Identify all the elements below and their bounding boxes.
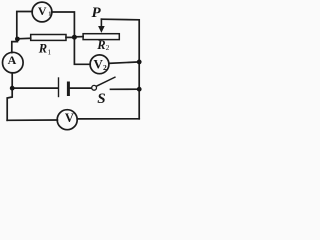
wire node A jog down to ammeter	[12, 39, 18, 53]
wire V1 right lead	[52, 12, 74, 37]
wire rheostat wiper to right rail	[101, 19, 139, 119]
svg-text:V: V	[65, 111, 74, 125]
rheostat wiper arrowhead	[98, 26, 105, 33]
node A junction dot	[15, 37, 20, 42]
voltmeter V1	[32, 2, 52, 22]
node E junction dot	[137, 87, 142, 92]
svg-text:R: R	[96, 38, 105, 52]
wire R1 to node B	[66, 36, 74, 38]
voltmeter V2	[90, 55, 109, 74]
ammeter A	[3, 52, 24, 73]
svg-text:V: V	[38, 4, 47, 18]
svg-text:2: 2	[103, 63, 107, 72]
svg-text:A: A	[8, 53, 17, 67]
wire node B down to voltmeter V2	[74, 37, 90, 64]
wire switch to node E	[111, 88, 140, 90]
wire left rail down	[7, 88, 12, 120]
wire bottom to voltmeter V	[7, 119, 57, 121]
node B junction dot	[72, 35, 77, 40]
voltmeter V	[57, 110, 77, 130]
battery long plate	[58, 78, 60, 97]
wire ammeter to node C	[11, 73, 13, 88]
wire node B to R2	[74, 36, 83, 38]
svg-text:R: R	[38, 42, 47, 56]
wire node C to battery	[12, 87, 58, 89]
switch S lever	[96, 77, 115, 86]
svg-text:P: P	[92, 5, 102, 21]
svg-text:S: S	[97, 91, 105, 107]
wire node A to R1	[17, 37, 30, 40]
node C junction dot	[10, 86, 15, 91]
wire battery to switch	[70, 87, 92, 89]
resistor R1	[31, 35, 66, 41]
wire voltmeter V to right rail	[77, 118, 139, 120]
wire V1 left lead	[17, 12, 32, 39]
rheostat wiper arrow stem	[100, 19, 102, 27]
svg-text:2: 2	[106, 43, 110, 52]
node D junction dot	[137, 60, 142, 65]
svg-text:V: V	[94, 56, 104, 71]
battery short thick plate	[67, 83, 70, 95]
svg-text:1: 1	[47, 48, 51, 57]
switch S pivot contact	[92, 85, 97, 90]
rheostat R2	[83, 34, 119, 40]
svg-text:1: 1	[48, 11, 51, 18]
wire V2 right lead to node D	[109, 62, 139, 64]
